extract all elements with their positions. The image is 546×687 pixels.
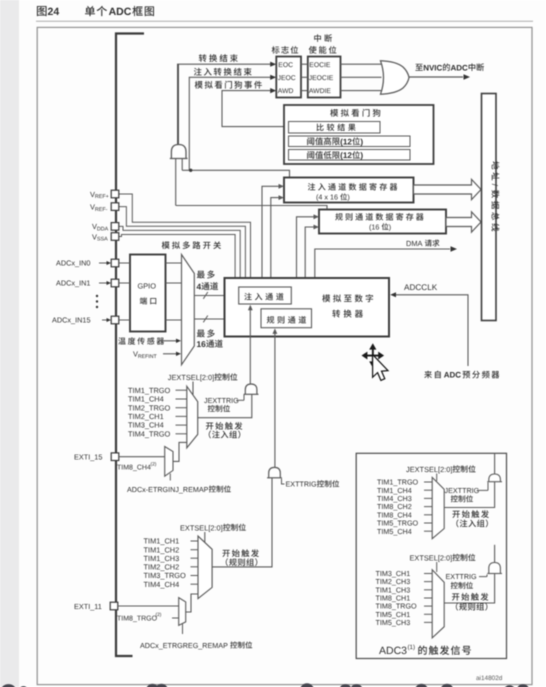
label: EXTTRIG控制位 xyxy=(282,479,340,489)
svg-text:4: 4 xyxy=(197,281,202,291)
label: EOCIE xyxy=(309,62,331,69)
svg-text:ADC: ADC xyxy=(444,371,462,380)
label: ADC3 开始触发(规则组) xyxy=(452,593,488,611)
box: 规则通道 xyxy=(261,309,312,328)
node: junction on injected net xyxy=(189,169,192,172)
svg-text:JEOC: JEOC xyxy=(278,75,296,82)
label: 开始触发(注入组) xyxy=(206,422,242,438)
labels: ADC3 regular inputs xyxy=(376,569,433,627)
box: 模拟看门狗 xyxy=(284,105,434,164)
svg-text:TIM1_CH1: TIM1_CH1 xyxy=(144,537,180,546)
pin: VREF- xyxy=(90,202,119,212)
svg-text:ai14802d: ai14802d xyxy=(476,675,503,682)
wire: EXTI_11 to remap mux xyxy=(118,605,179,607)
svg-text:TIM1_CH4: TIM1_CH4 xyxy=(128,395,164,404)
box: 阈值高限 xyxy=(289,136,411,147)
svg-text:ADCx_IN1: ADCx_IN1 xyxy=(56,279,90,288)
wire: EOCIE to OR gate xyxy=(341,63,384,65)
pin: VSSA xyxy=(92,232,119,242)
wire: DMA request xyxy=(315,246,457,278)
svg-text:REFINT: REFINT xyxy=(138,354,158,360)
svg-text:TIM2_TRGO: TIM2_TRGO xyxy=(128,403,171,412)
wire: GPIO to mux 1 xyxy=(166,262,182,264)
wire: AWD to AWDIE xyxy=(301,90,308,92)
wire: EXTI_15 to remap mux xyxy=(119,456,165,458)
mux: regular trigger select xyxy=(198,536,212,599)
svg-text:(12: (12 xyxy=(340,151,352,160)
pin: VREF+ xyxy=(90,190,119,200)
label: TIM8_TRGO(2) xyxy=(117,612,179,623)
label: ADC3 EXTTRIG 控制位 xyxy=(446,572,488,589)
label: 标志位 xyxy=(272,46,298,54)
svg-text:EXTSEL[2:0]: EXTSEL[2:0] xyxy=(180,523,223,532)
svg-text:(12: (12 xyxy=(340,137,352,146)
svg-text:EOC: EOC xyxy=(278,62,293,69)
svg-text:JEXTSEL[2:0]: JEXTSEL[2:0] xyxy=(168,373,214,382)
label: 使能位 xyxy=(309,46,337,54)
label: ADC3(1)的触发信号 xyxy=(379,644,471,657)
labels: regular trigger inputs TIM1_CH1..TIM4_CH4 xyxy=(144,537,199,589)
wire: injected mux output xyxy=(198,394,252,417)
svg-text:24: 24 xyxy=(48,6,60,18)
label: GPIO xyxy=(138,282,157,291)
mux: analog multiplexer xyxy=(182,255,195,365)
svg-text:TIM5_CH4: TIM5_CH4 xyxy=(377,527,412,536)
label: ADC3 JEXTTRIG-控制位 xyxy=(445,483,489,503)
svg-text:REF-: REF- xyxy=(95,207,108,213)
wire: regular mux output xyxy=(212,478,272,567)
label: 注入转换结束 xyxy=(194,68,252,76)
wire: ADC3 injected mux output xyxy=(444,482,494,508)
label: 比较结果 xyxy=(317,124,356,132)
svg-text:): ) xyxy=(360,151,363,160)
label: 端口 xyxy=(140,297,156,304)
wire: ADC interrupt to NVIC xyxy=(409,74,470,80)
svg-text:(4 x 16: (4 x 16 xyxy=(316,193,338,202)
label: VREFINT xyxy=(133,349,181,359)
wire: main left bus with end stubs xyxy=(116,34,144,657)
pin: VDDA xyxy=(92,222,119,232)
label: 模拟看门狗事件 xyxy=(195,81,262,89)
wire: injected channel to register A xyxy=(262,184,284,287)
box: ADC3 trigger sub-figure frame xyxy=(356,453,506,658)
wire: mux to injected channels (4) xyxy=(194,292,238,299)
mux: ADC3 regular trigger select xyxy=(432,570,444,638)
decorative bottom icon row (cropped) xyxy=(2,683,530,687)
wire: IN1 to GPIO xyxy=(119,282,130,284)
svg-text:TIM4_CH4: TIM4_CH4 xyxy=(144,580,180,589)
svg-text:(16: (16 xyxy=(369,222,379,231)
wire: VREF- supply xyxy=(119,207,245,278)
wire: regular-end net to regular data register xyxy=(176,206,327,210)
pin: EXTI_11 xyxy=(74,602,118,611)
label: 开始触发(规则组) xyxy=(222,549,258,566)
box: 注入通道数据寄存器 xyxy=(284,178,414,203)
box: status flags (EOC/JEOC/AWD) xyxy=(276,57,301,98)
svg-text:ADCCLK: ADCCLK xyxy=(404,283,438,292)
svg-text:AWD: AWD xyxy=(278,88,294,95)
gate: JEXTTRIG AND xyxy=(244,384,259,394)
mux: ADC3 injected trigger select xyxy=(432,477,444,538)
svg-text:TIM8_CH4: TIM8_CH4 xyxy=(117,464,151,471)
label: AWDIE xyxy=(309,88,331,95)
box: 模拟至数字转换器 (ADC) xyxy=(225,278,390,337)
wire: ADC3 EXTSEL stub xyxy=(436,562,438,572)
label: 至NVIC的ADC中断 xyxy=(415,63,484,72)
wire: IN0 to GPIO xyxy=(119,262,130,264)
gate: EOC combine (dome up) xyxy=(170,145,188,159)
icon: move cursor xyxy=(362,343,385,367)
svg-text:GPIO: GPIO xyxy=(138,282,157,291)
svg-text:EXTI_11: EXTI_11 xyxy=(74,602,102,611)
wire: remap reg select stub xyxy=(182,624,184,635)
svg-text:ADCx_ETRGREG_REMAP: ADCx_ETRGREG_REMAP xyxy=(140,641,228,650)
svg-text:TIM5_CH3: TIM5_CH3 xyxy=(376,618,411,627)
svg-text:(2): (2) xyxy=(156,612,162,618)
wire: remap select stub xyxy=(169,474,171,481)
svg-text:): ) xyxy=(360,137,363,146)
svg-text:JEXTTRIG: JEXTTRIG xyxy=(204,396,239,405)
wire: regular channel to register A xyxy=(297,214,320,308)
box: 规则通道数据寄存器 xyxy=(319,210,446,234)
title: 单个ADC框图 xyxy=(85,6,154,18)
title: 图24 xyxy=(37,6,59,18)
label: 模拟至数字 xyxy=(322,294,373,302)
box: 阈值低限 xyxy=(289,150,411,161)
box: 注入通道 xyxy=(239,287,292,304)
label: ADC3 JEXTSEL[2:0]控制位 xyxy=(406,465,476,474)
svg-text:TIM1_TRGO: TIM1_TRGO xyxy=(128,386,171,395)
svg-text:): ) xyxy=(347,193,349,202)
wire: JEOC to JEOCIE xyxy=(301,76,308,78)
pin: ADCx_IN0 xyxy=(56,259,119,268)
label: ADC3 开始触发(注入组) xyxy=(452,510,488,527)
label: 转换器 xyxy=(332,310,363,318)
svg-text:ADC3: ADC3 xyxy=(379,645,407,657)
wire: GPIO to mux 2 xyxy=(166,282,182,284)
wire: injected channel to register B xyxy=(271,195,284,287)
gate: OR to NVIC xyxy=(381,61,410,94)
label: ADCx_ETRGREG_REMAP 控制位 xyxy=(140,641,252,650)
left gray gutter xyxy=(0,0,19,687)
wire: regular trigger into 规则通道 xyxy=(273,328,278,467)
gate: ADC3 JEXTTRIG AND xyxy=(487,474,502,482)
svg-text:EOCIE: EOCIE xyxy=(309,62,331,69)
box: address/data bus bar xyxy=(482,94,497,321)
svg-text:SSA: SSA xyxy=(97,237,108,243)
labels: ADC3 injected inputs xyxy=(377,478,432,536)
svg-text:): ) xyxy=(389,222,391,231)
label: (4 x 16 位) xyxy=(316,193,350,202)
box: interrupt enable (EOCIE/JEOCIE/AWDIE) xyxy=(308,57,341,98)
svg-text:EXTTRIG: EXTTRIG xyxy=(286,480,318,489)
label: EXTSEL[2:0]控制位 xyxy=(180,523,246,532)
svg-text:TIM3_CH4: TIM3_CH4 xyxy=(128,421,164,430)
wire: ADC3 EXTTRIG gate output xyxy=(494,545,496,563)
gate: ADC3 EXTTRIG AND xyxy=(487,563,502,574)
label: 中断 xyxy=(314,34,332,42)
label: 转换结束 xyxy=(199,54,238,62)
svg-text:EXTI_15: EXTI_15 xyxy=(74,453,102,462)
wire: AWD event xyxy=(222,88,284,127)
wire: remap mux to regular mux xyxy=(186,594,198,612)
svg-text:JEXTSEL[2:0]: JEXTSEL[2:0] xyxy=(406,465,452,474)
label: 温度传感器 xyxy=(118,337,181,344)
block arrow: injected register to bus xyxy=(414,179,482,199)
svg-text:ADCx-ETRGINJ_REMAP: ADCx-ETRGINJ_REMAP xyxy=(127,485,209,494)
svg-text:AWDIE: AWDIE xyxy=(309,88,331,95)
icon: mouse pointer xyxy=(373,355,388,381)
title underline xyxy=(36,20,533,22)
svg-text:ADCx_IN0: ADCx_IN0 xyxy=(56,259,90,268)
svg-text:(2): (2) xyxy=(151,461,157,467)
labels: injected trigger inputs TIM1_TRGO..TIM4_TRGO xyxy=(128,386,187,439)
svg-text:ADCx_IN15: ADCx_IN15 xyxy=(52,316,91,325)
label: 规则通道 xyxy=(267,316,306,324)
wire: JEXTSEL select stub xyxy=(192,382,194,395)
wire: injected-end net to injected data register xyxy=(182,170,289,177)
gate: EXTTRIG AND xyxy=(267,467,282,477)
label: JEXTTRIG-控制位 xyxy=(204,394,244,412)
label: 地址/数据总线 (vertical) xyxy=(490,161,499,231)
wire: JEOCIE to OR gate xyxy=(341,76,382,78)
svg-text:DDA: DDA xyxy=(97,227,109,233)
wire: VREF+ supply xyxy=(119,194,251,278)
mux: ETRGREG remap xyxy=(179,598,186,626)
wire: regular channel to register B xyxy=(305,225,319,309)
wire: ADC3 JEXTTRIG gate output xyxy=(494,453,496,474)
wire: JEOC to flag (注入转换结束) xyxy=(189,75,276,171)
wire: mux to regular channels (16) xyxy=(194,316,260,323)
label: 最多 4通道 xyxy=(197,270,219,291)
label: 注入通道数据寄存器 xyxy=(308,183,398,191)
label: ADCCLK xyxy=(404,283,438,292)
svg-text:ADC: ADC xyxy=(109,6,132,18)
label: 来自ADC预分频器 xyxy=(424,371,499,380)
wire: VSSA supply xyxy=(119,235,235,279)
dots: channel ellipsis xyxy=(96,295,98,308)
label: 最多 16通道 xyxy=(197,329,223,349)
wire: EOC to EOCIE xyxy=(301,63,308,65)
svg-text:DMA: DMA xyxy=(406,239,422,248)
mux: injected trigger select xyxy=(187,386,198,448)
wire: injected trigger into 注入通道 xyxy=(248,305,253,384)
wire: ADC3 regular mux output xyxy=(444,574,494,604)
svg-text:JEXTTRIG: JEXTTRIG xyxy=(445,486,480,495)
wire: ADC3 JEXTSEL stub xyxy=(436,474,438,482)
svg-text:16: 16 xyxy=(197,339,207,349)
label: EOC xyxy=(278,62,293,69)
wire: GPIO to mux 3 xyxy=(166,319,182,321)
svg-text:TIM4_TRGO: TIM4_TRGO xyxy=(128,429,171,438)
block arrow: regular register to bus xyxy=(446,212,481,232)
label: 阈值高限(12位) xyxy=(307,137,363,146)
svg-text:TIM3_TRGO: TIM3_TRGO xyxy=(144,571,187,580)
label: 阈值低限(12位) xyxy=(307,151,363,160)
label: ai14802d xyxy=(476,675,503,682)
wire: gate input from injected net xyxy=(181,159,183,171)
svg-text:TIM2_CH1: TIM2_CH1 xyxy=(128,412,164,421)
svg-text:NVIC: NVIC xyxy=(423,63,442,72)
pin: ADCx_IN1 xyxy=(56,279,119,288)
label: 规则通道数据寄存器 xyxy=(335,213,423,221)
label: AWD xyxy=(278,88,294,95)
svg-text:JEOCIE: JEOCIE xyxy=(309,75,334,82)
wire: VDDA supply xyxy=(119,226,240,278)
svg-text:(1): (1) xyxy=(408,644,416,651)
label: DMA 请求 xyxy=(406,239,439,248)
pin: EXTI_15 xyxy=(74,453,119,462)
label: TIM8_CH4(2) xyxy=(117,461,157,471)
label: JEOC xyxy=(278,75,296,82)
label: JEOCIE xyxy=(309,75,334,82)
pin: ADCx_IN15 xyxy=(52,316,119,325)
box: GPIO 端口 xyxy=(130,255,166,332)
svg-text:TIM2_CH2: TIM2_CH2 xyxy=(144,562,180,571)
svg-text:REF+: REF+ xyxy=(95,194,109,200)
wire: EOC gate output vertical xyxy=(177,64,179,144)
wire: AWDIE to OR gate xyxy=(341,90,384,92)
wire: EXTSEL select stub xyxy=(204,532,206,544)
label: 模拟看门狗 xyxy=(330,109,380,117)
svg-text:EXTSEL[2:0]: EXTSEL[2:0] xyxy=(410,553,453,562)
wire: remap mux to injected mux xyxy=(173,442,187,461)
label: ADC3 EXTSEL[2:0]控制位 xyxy=(410,553,476,562)
wire: IN15 to GPIO xyxy=(119,319,130,321)
wire: gate input from regular-data net xyxy=(175,159,177,206)
svg-text:TIM8_TRGO: TIM8_TRGO xyxy=(117,615,158,622)
wire: EOC to flag (转换结束) xyxy=(177,62,276,67)
box: 比较结果 xyxy=(289,122,381,134)
label: 模拟多路开关 xyxy=(162,241,221,249)
wire: ADCCLK from prescaler xyxy=(390,292,468,366)
label: (16 位) xyxy=(369,222,391,231)
svg-text:ADC: ADC xyxy=(451,63,469,72)
label: 注入通道 xyxy=(244,293,283,300)
mux: ETRGINJ remap xyxy=(165,447,173,477)
svg-text:EXTTRIG: EXTTRIG xyxy=(446,572,478,581)
label: ADCx-ETRGINJ_REMAP控制位 xyxy=(127,485,231,494)
label: JEXTSEL[2:0]控制位 xyxy=(168,373,238,382)
